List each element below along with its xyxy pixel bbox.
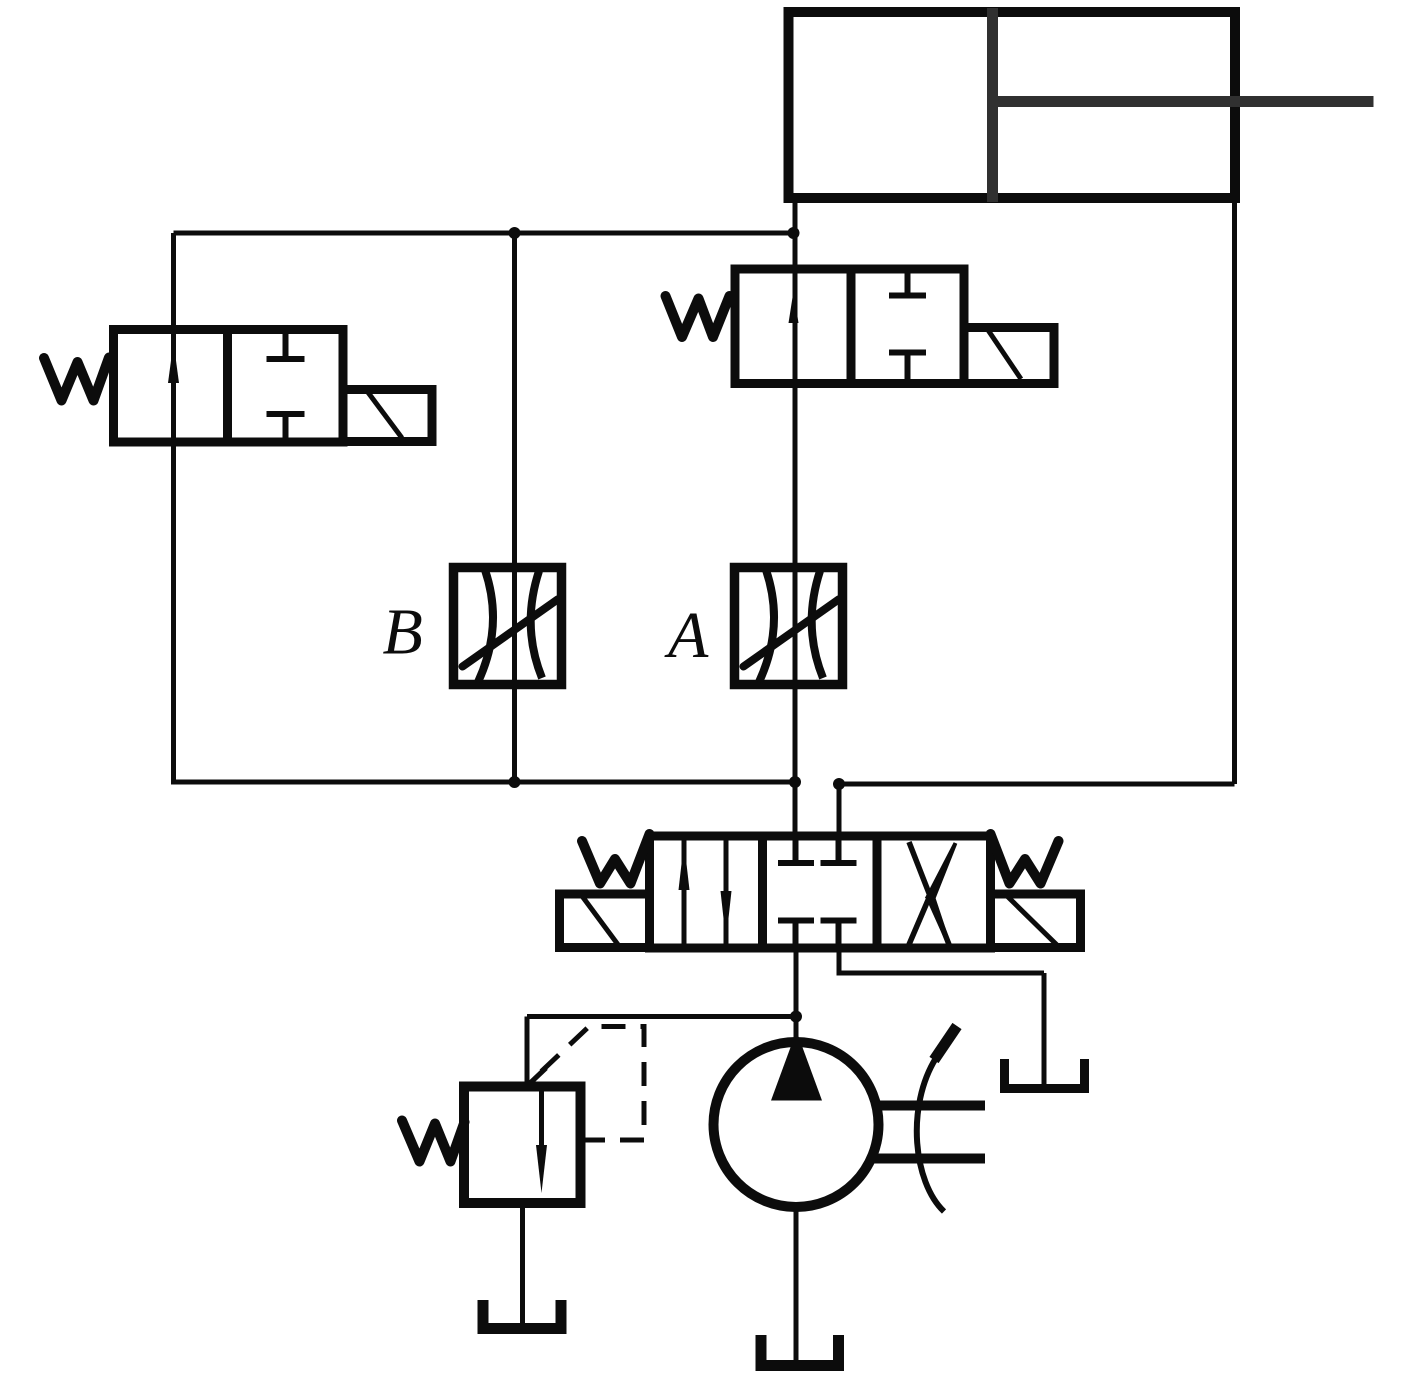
svg-text:A: A — [664, 599, 709, 672]
node: junction dot P line / relief branch — [790, 1011, 802, 1023]
wire: bottom rail left section — [171, 780, 795, 785]
wire: T line drop into right tank — [1042, 973, 1047, 1086]
valve V3: left return spring — [582, 834, 650, 884]
throttle valve B: body square — [454, 568, 562, 685]
wire: P line from valve V3 to pump — [794, 946, 799, 1052]
wire: right rail from B-port junction to right frame — [839, 782, 1235, 787]
node: junction dot bottom rail / branch B — [509, 776, 521, 788]
valve V3: 4/3 directional valve body (three squares) — [650, 836, 991, 948]
cylinder: piston — [987, 8, 998, 202]
node: junction dot top rail / cylinder port — [788, 227, 800, 239]
valve V2: solenoid box — [964, 328, 1054, 384]
valve V3: centre position blocked ports (A,B top; P,T bottom) — [778, 838, 857, 946]
relief valve: spring — [402, 1121, 465, 1162]
node: junction dot right rail / B port — [833, 778, 845, 790]
relief valve: internal flow line — [539, 1088, 544, 1148]
valve V2: return spring — [666, 296, 730, 337]
valve V1: flow arrow head (up) in open position — [168, 342, 179, 383]
valve V1: solenoid diagonal — [367, 391, 402, 438]
valve V1: solenoid box — [343, 390, 432, 442]
wire: right frame vertical from cylinder rod-side port — [1232, 198, 1237, 784]
wire: top rail from left frame to cylinder port — [174, 231, 794, 236]
valve V3: left solenoid diagonal — [582, 896, 619, 946]
svg-text:B: B — [383, 596, 423, 669]
valve V3: left position up arrowhead — [679, 842, 690, 890]
wire: T line down from valve V3 — [837, 946, 842, 973]
cylinder: rod — [993, 96, 1374, 107]
pump: drive shaft lines — [874, 1106, 985, 1159]
tank symbol: T return of valve V3 — [1005, 1059, 1085, 1089]
relief valve: pilot line (dashed) — [529, 1027, 644, 1141]
wire: B-port stub into valve V3 — [837, 784, 842, 840]
wire: relief valve outlet to tank — [520, 1200, 525, 1324]
node: junction dot top rail / branch B — [509, 227, 521, 239]
wire: relief valve inlet drop — [525, 1017, 530, 1091]
wire: branch B vertical (through throttle B) — [512, 233, 517, 782]
valve V3: crossed-path arrowhead up-right — [925, 842, 957, 902]
valve V3: right solenoid diagonal — [1007, 896, 1058, 946]
valve V3: left solenoid box — [560, 894, 650, 948]
valve V3: left position parallel flow lines — [684, 838, 726, 946]
valve V2: blocked port T symbols — [889, 271, 926, 381]
valve V3: left position down arrowhead — [721, 891, 732, 941]
pump: outlet triangle (up) — [771, 1031, 822, 1101]
valve V1: 2/2 solenoid valve body — [114, 330, 344, 443]
node: junction dot bottom rail / A line — [789, 776, 801, 788]
throttle valve A: restriction arcs — [759, 570, 823, 682]
cylinder: body — [789, 12, 1236, 198]
wire: relief branch horizontal — [527, 1014, 796, 1019]
valve V3: crossed-path arrowhead down-right — [926, 894, 951, 944]
valve V1: return spring — [44, 358, 109, 401]
throttle valve A: body square — [735, 568, 843, 685]
pump: variable displacement arc arrow — [917, 1058, 944, 1212]
wire: branch A vertical from top rail through valve V2 and throttle A to valve V3 — [793, 198, 798, 838]
valve V3: right return spring — [991, 834, 1059, 884]
relief valve: body square — [464, 1087, 581, 1204]
throttle valve B: restriction arcs — [478, 570, 542, 682]
relief valve: tank symbol — [483, 1300, 561, 1329]
pump: variable arrow head — [934, 1026, 957, 1060]
valve V2: 2/2 solenoid valve body — [735, 269, 964, 384]
wire: pump suction line to tank — [794, 1208, 799, 1362]
valve V2: flow arrow head (up) in open position — [789, 291, 799, 323]
valve V3: right position crossed flow lines — [909, 842, 949, 945]
relief valve: internal down arrowhead — [536, 1145, 547, 1193]
pump: tank symbol — [761, 1335, 839, 1366]
valve V1: blocked port T symbols — [267, 332, 305, 440]
wire: T line horizontal to right tank — [837, 971, 1045, 976]
wire: left frame vertical (through valve V1) — [171, 233, 176, 782]
valve V2: solenoid diagonal — [988, 330, 1021, 379]
pump: circle — [714, 1042, 879, 1207]
throttle valve A: adjustment diagonal arrow — [744, 600, 839, 667]
valve V3: right solenoid box — [991, 894, 1081, 948]
throttle valve B: adjustment diagonal arrow — [463, 600, 558, 667]
